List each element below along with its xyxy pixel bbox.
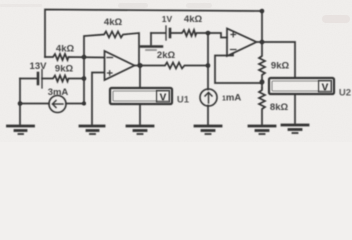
ground (8k resistor) <box>249 126 275 134</box>
node: U2 output <box>260 40 265 45</box>
op-amp U1 plus mark <box>108 72 113 74</box>
node: mid column 2k <box>206 63 211 68</box>
feedback wire from divider to inverting input of U2 <box>215 54 262 84</box>
wire from output node to voltmeter U2 <box>262 42 295 78</box>
faint bleed-through marks above rail <box>118 3 148 8</box>
resistor 9k (13V branch) <box>42 76 84 82</box>
battery 1V plates <box>165 26 167 40</box>
ground symbol for 1V source branch <box>150 33 152 45</box>
voltmeter U1 V glyph <box>157 91 170 104</box>
current source 3mA <box>49 96 66 113</box>
node: 13V column / 3mA <box>18 101 23 106</box>
node: rail right end <box>260 9 265 14</box>
battery 13V plates <box>37 73 40 84</box>
resistor 4k (1V branch) <box>170 30 208 36</box>
current source 1mA <box>200 89 217 106</box>
node: divider junction <box>260 80 265 85</box>
op-amp U1 triangle <box>105 51 135 80</box>
node: 9k join <box>82 76 87 81</box>
output node wire of U1 <box>135 65 141 67</box>
non-inverting input ground wire <box>92 73 104 125</box>
node column between stages <box>207 33 209 90</box>
node: mid column top <box>206 31 211 36</box>
ground (13V branch) <box>8 126 34 134</box>
op-amp U2 triangle <box>227 29 257 57</box>
op-amp U2 minus mark <box>231 49 237 51</box>
wire: 3mA row <box>20 103 49 105</box>
ground (voltmeter U1) <box>127 126 153 134</box>
voltmeter U2 V glyph <box>319 81 332 94</box>
voltmeter U1 branch <box>139 66 141 89</box>
paper noise <box>0 0 1 1</box>
resistor 2k row to node column <box>140 63 208 69</box>
ground (voltmeter U2) <box>282 125 308 133</box>
wire: right column from rail to op-amp2 output node <box>261 11 263 42</box>
op-amp U2 plus mark <box>231 34 236 36</box>
wire to op-amp2 non-inverting input <box>208 33 227 38</box>
faint scan streak top left <box>0 4 42 7</box>
left column down from 13V to ground <box>19 79 21 125</box>
ground (op-amp1 + input) <box>80 126 104 134</box>
node: inverting input of U1 (4k) <box>82 55 87 60</box>
resistor 8k (divider bottom) <box>259 88 265 124</box>
resistor 9k (divider top) <box>259 42 265 88</box>
wire: top feedback rail from U2 output to left column <box>45 10 262 58</box>
battery 13V row with resistor 9k <box>20 78 37 80</box>
op-amp U2 output wire <box>257 41 263 43</box>
resistor R 4k input (left, to inverting input of op-amp1) <box>45 54 104 60</box>
battery 1V branch wire <box>151 32 165 34</box>
node: U1 output <box>138 63 143 68</box>
op-amp U1 feedback: resistor 4k over amplifier <box>84 32 139 66</box>
node: 3mA join <box>82 102 86 106</box>
op-amp U1 minus mark <box>107 57 113 59</box>
voltmeter U2 box <box>269 78 334 94</box>
node line (inverting input node column) <box>83 57 85 103</box>
faint scan smudge top right <box>322 15 350 23</box>
ground (1mA source) <box>195 126 221 134</box>
